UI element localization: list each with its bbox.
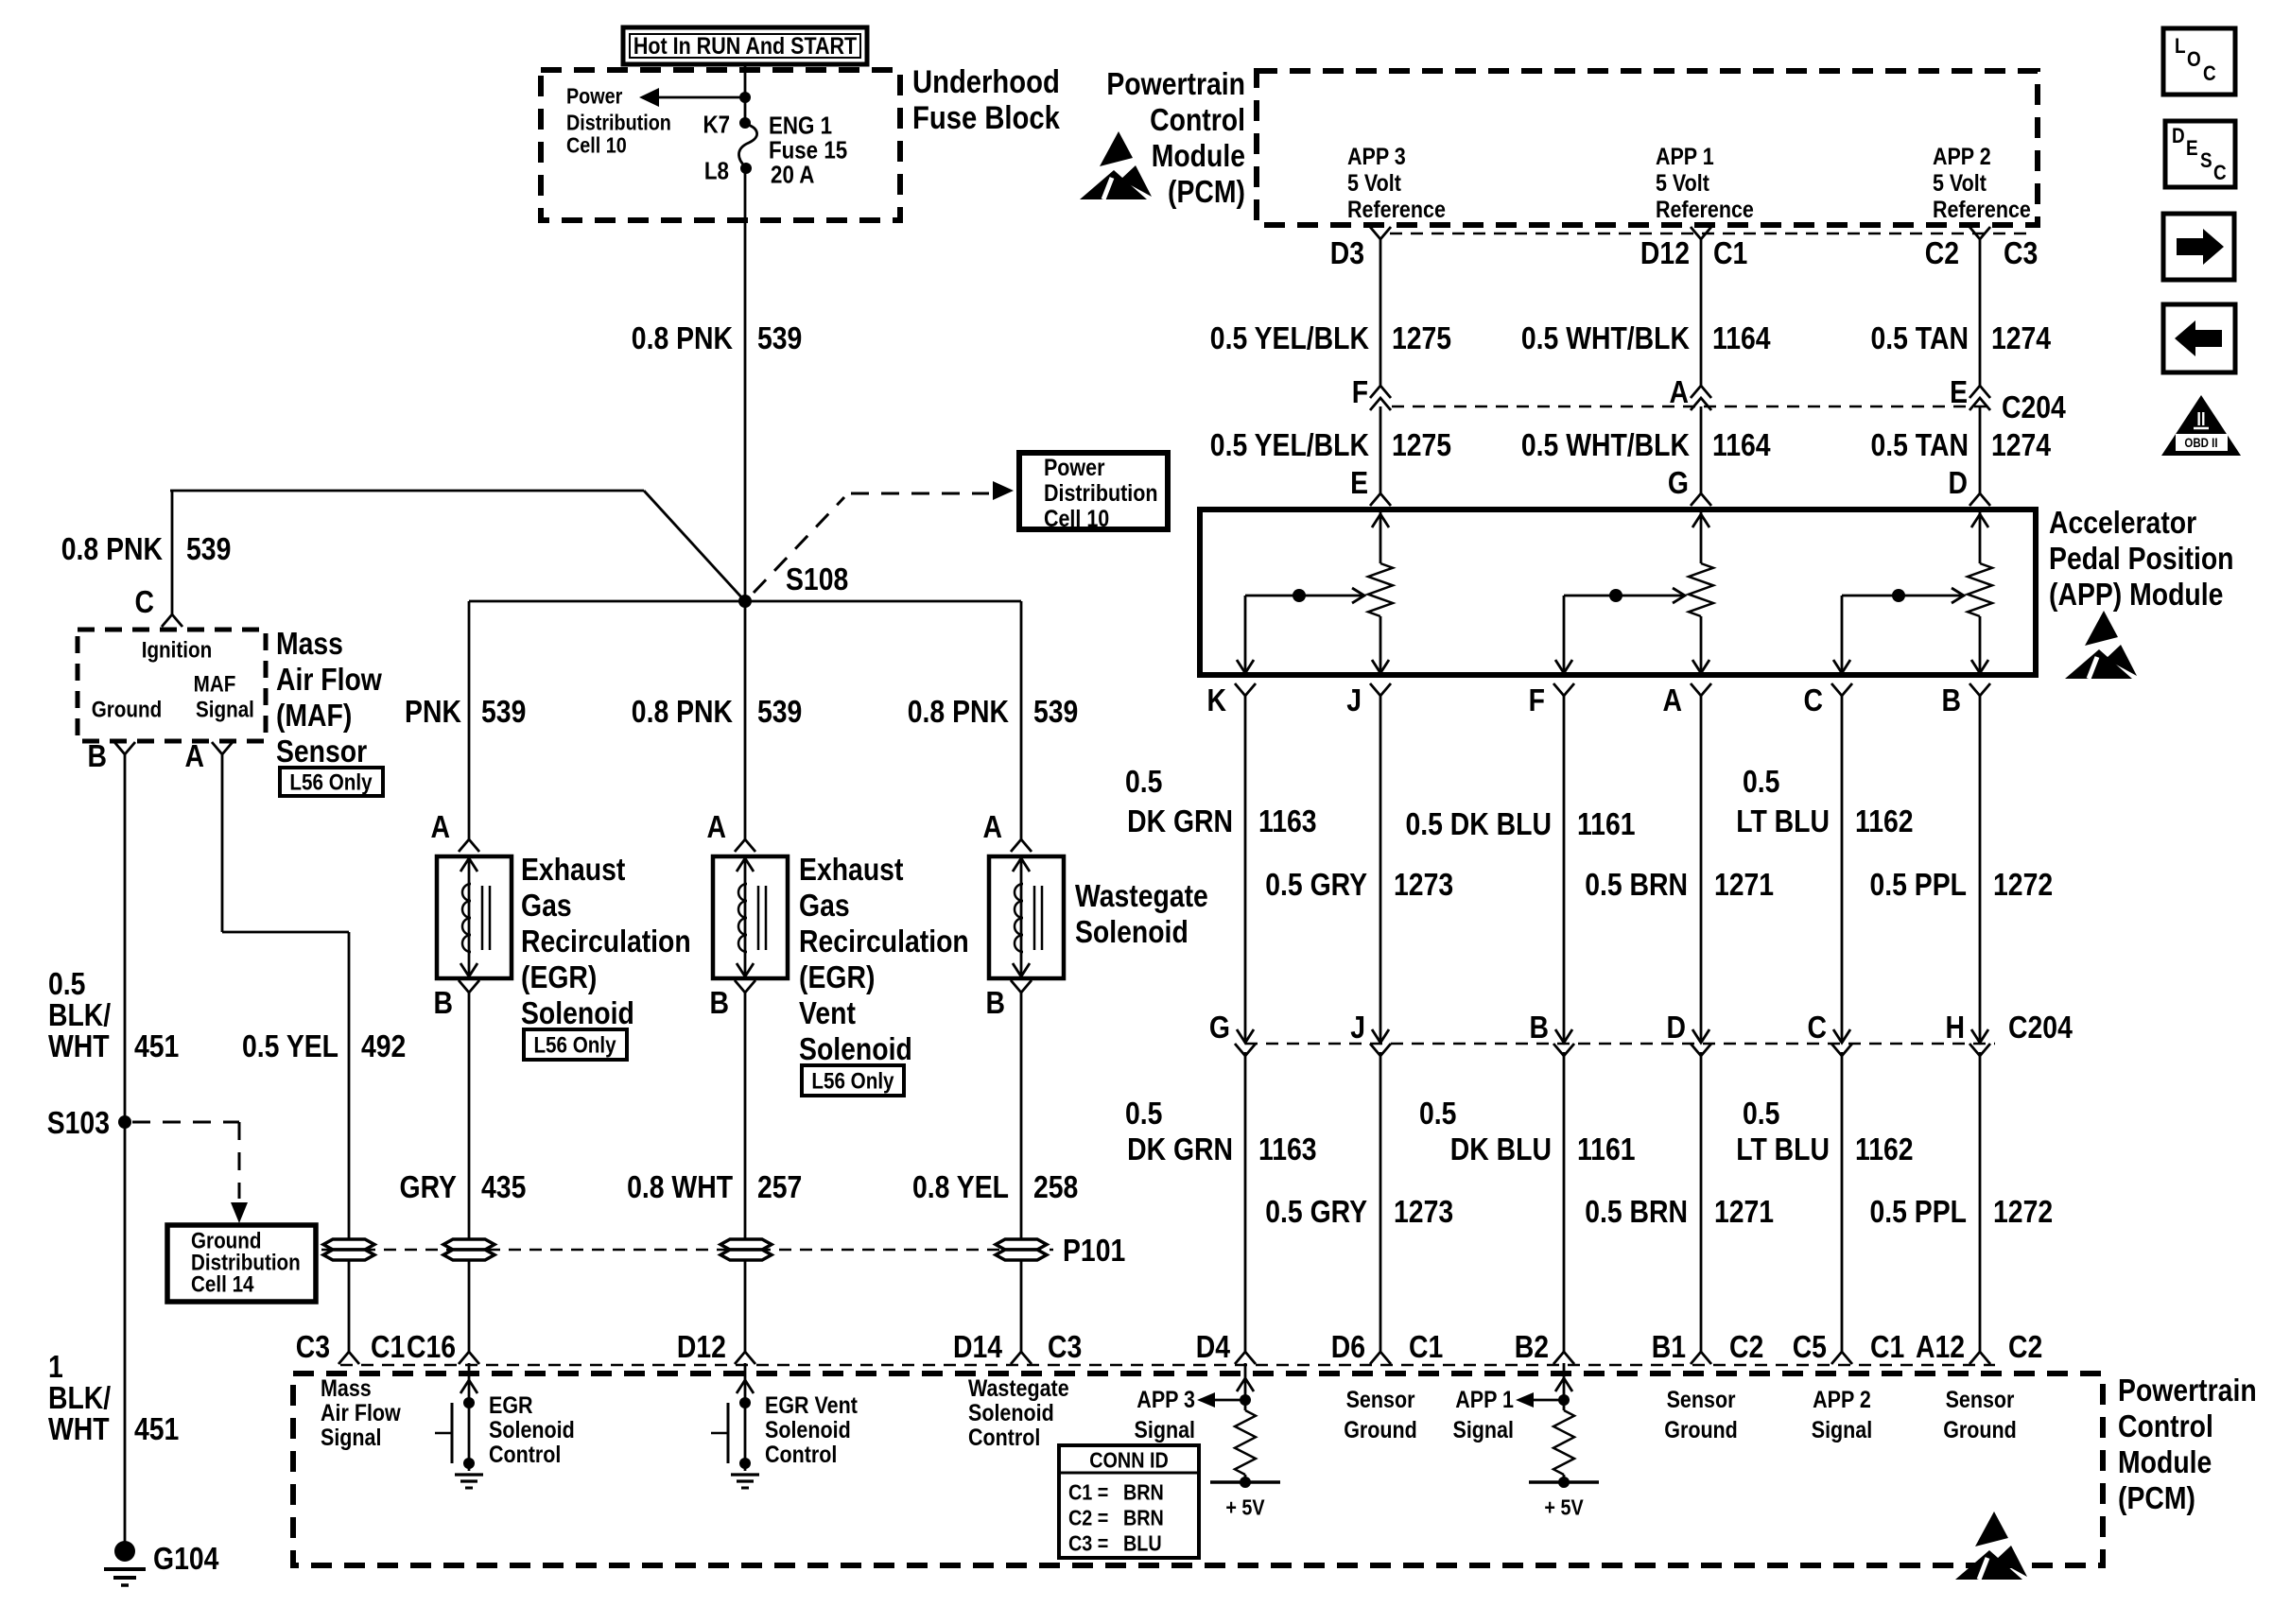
svg-text:Distribution: Distribution xyxy=(1044,479,1158,506)
svg-text:G104: G104 xyxy=(153,1541,218,1577)
svg-text:L8: L8 xyxy=(704,158,729,185)
svg-text:0.5 WHT/BLK: 0.5 WHT/BLK xyxy=(1521,427,1690,463)
svg-text:451: 451 xyxy=(134,1411,179,1447)
svg-text:E: E xyxy=(1950,374,1968,410)
svg-text:451: 451 xyxy=(134,1028,179,1064)
svg-text:Cell 10: Cell 10 xyxy=(566,133,627,158)
svg-text:+ 5V: + 5V xyxy=(1225,1495,1265,1520)
svg-text:Control: Control xyxy=(1150,102,1245,138)
svg-text:258: 258 xyxy=(1033,1169,1078,1205)
svg-text:5 Volt: 5 Volt xyxy=(1933,169,1987,196)
svg-text:1163: 1163 xyxy=(1258,803,1317,839)
svg-text:L56 Only: L56 Only xyxy=(289,769,373,795)
svg-text:WHT: WHT xyxy=(48,1411,110,1447)
svg-text:A: A xyxy=(1669,374,1688,410)
svg-text:Control: Control xyxy=(489,1441,561,1467)
svg-text:C: C xyxy=(2203,62,2216,86)
svg-text:0.5 GRY: 0.5 GRY xyxy=(1265,867,1367,903)
svg-text:B: B xyxy=(1941,682,1960,718)
svg-text:5 Volt: 5 Volt xyxy=(1656,169,1709,196)
svg-text:OBD II: OBD II xyxy=(2184,435,2217,450)
svg-text:G: G xyxy=(1668,465,1689,501)
svg-text:0.5 YEL/BLK: 0.5 YEL/BLK xyxy=(1210,320,1369,356)
svg-text:(MAF): (MAF) xyxy=(276,698,352,734)
svg-text:Powertrain: Powertrain xyxy=(1106,66,1245,102)
svg-text:Ground: Ground xyxy=(1344,1416,1417,1443)
svg-text:L56 Only: L56 Only xyxy=(533,1032,616,1058)
svg-text:492: 492 xyxy=(361,1028,406,1064)
svg-text:Cell 14: Cell 14 xyxy=(191,1271,254,1297)
svg-text:D4: D4 xyxy=(1196,1329,1230,1365)
svg-text:Mass: Mass xyxy=(276,626,343,662)
svg-text:A: A xyxy=(185,738,204,774)
svg-text:S108: S108 xyxy=(786,561,848,597)
svg-text:(EGR): (EGR) xyxy=(799,959,875,995)
svg-text:P101: P101 xyxy=(1063,1233,1125,1269)
svg-text:0.5 DK BLU: 0.5 DK BLU xyxy=(1405,806,1551,842)
svg-text:B: B xyxy=(88,738,107,774)
svg-text:1274: 1274 xyxy=(1991,320,2051,356)
svg-text:Mass: Mass xyxy=(321,1374,372,1401)
svg-text:APP 3: APP 3 xyxy=(1136,1386,1195,1412)
svg-text:Power: Power xyxy=(566,84,623,109)
svg-text:Distribution: Distribution xyxy=(566,111,671,135)
svg-text:Solenoid: Solenoid xyxy=(765,1416,851,1443)
svg-text:Wastegate: Wastegate xyxy=(968,1374,1069,1401)
svg-text:Fuse 15: Fuse 15 xyxy=(769,137,847,164)
svg-text:0.8 PNK: 0.8 PNK xyxy=(632,694,733,730)
svg-text:Pedal Position: Pedal Position xyxy=(2049,541,2233,577)
svg-text:APP 1: APP 1 xyxy=(1656,143,1714,169)
svg-text:APP 1: APP 1 xyxy=(1455,1386,1514,1412)
svg-text:B: B xyxy=(434,985,453,1021)
svg-text:0.5: 0.5 xyxy=(48,966,85,1002)
svg-text:B1: B1 xyxy=(1652,1329,1686,1365)
svg-text:C204: C204 xyxy=(2002,389,2066,425)
svg-text:D12: D12 xyxy=(677,1329,726,1365)
svg-text:1161: 1161 xyxy=(1577,1132,1636,1167)
svg-text:1161: 1161 xyxy=(1577,806,1636,842)
svg-text:Exhaust: Exhaust xyxy=(521,852,625,888)
svg-text:C1: C1 xyxy=(1870,1329,1904,1365)
svg-text:Reference: Reference xyxy=(1933,196,2031,222)
svg-text:EGR Vent: EGR Vent xyxy=(765,1391,858,1418)
svg-text:H: H xyxy=(1946,1010,1965,1045)
svg-text:1272: 1272 xyxy=(1993,1194,2053,1230)
svg-text:Gas: Gas xyxy=(799,888,850,924)
svg-text:(PCM): (PCM) xyxy=(1168,174,1245,210)
svg-text:Recirculation: Recirculation xyxy=(799,924,969,959)
svg-text:B: B xyxy=(1530,1010,1549,1045)
svg-text:Wastegate: Wastegate xyxy=(1075,878,1208,914)
svg-text:Control: Control xyxy=(765,1441,837,1467)
svg-text:Signal: Signal xyxy=(321,1424,381,1450)
svg-text:1271: 1271 xyxy=(1714,867,1774,903)
svg-text:1275: 1275 xyxy=(1392,427,1451,463)
svg-text:C1 =: C1 = xyxy=(1068,1480,1108,1505)
svg-text:C3: C3 xyxy=(1048,1329,1082,1365)
svg-text:Solenoid: Solenoid xyxy=(1075,914,1189,950)
svg-text:D6: D6 xyxy=(1331,1329,1365,1365)
svg-text:A: A xyxy=(983,809,1002,845)
svg-text:Sensor: Sensor xyxy=(1946,1386,2015,1412)
svg-text:20 A: 20 A xyxy=(771,162,814,189)
svg-text:Reference: Reference xyxy=(1656,196,1754,222)
svg-text:1273: 1273 xyxy=(1394,867,1453,903)
svg-text:Solenoid: Solenoid xyxy=(521,995,634,1031)
svg-text:1162: 1162 xyxy=(1855,803,1914,839)
svg-text:J: J xyxy=(1346,682,1362,718)
svg-text:B: B xyxy=(985,985,1004,1021)
svg-text:J: J xyxy=(1350,1010,1365,1045)
svg-text:539: 539 xyxy=(1033,694,1078,730)
svg-text:L: L xyxy=(2175,35,2186,59)
svg-text:Exhaust: Exhaust xyxy=(799,852,903,888)
svg-text:BLK/: BLK/ xyxy=(48,1380,112,1416)
svg-text:0.5 WHT/BLK: 0.5 WHT/BLK xyxy=(1521,320,1690,356)
svg-text:Solenoid: Solenoid xyxy=(489,1416,575,1443)
svg-text:F: F xyxy=(1529,682,1545,718)
svg-text:A: A xyxy=(431,809,450,845)
svg-text:0.5: 0.5 xyxy=(1125,764,1162,800)
svg-text:Powertrain: Powertrain xyxy=(2118,1373,2257,1408)
svg-text:0.5: 0.5 xyxy=(1743,764,1779,800)
svg-text:0.8 PNK: 0.8 PNK xyxy=(61,531,163,567)
svg-text:C2 =: C2 = xyxy=(1068,1506,1108,1530)
svg-text:C16: C16 xyxy=(407,1329,456,1365)
svg-text:C2: C2 xyxy=(2008,1329,2042,1365)
svg-text:CONN ID: CONN ID xyxy=(1089,1448,1168,1473)
svg-text:C3 =: C3 = xyxy=(1068,1531,1108,1556)
svg-text:C2: C2 xyxy=(1925,235,1959,271)
svg-text:Control: Control xyxy=(2118,1408,2213,1444)
svg-text:B: B xyxy=(710,985,729,1021)
svg-text:S103: S103 xyxy=(47,1105,110,1141)
svg-text:Gas: Gas xyxy=(521,888,572,924)
svg-text:C: C xyxy=(1808,1010,1827,1045)
svg-text:C1: C1 xyxy=(1713,235,1747,271)
svg-text:DK BLU: DK BLU xyxy=(1450,1132,1552,1167)
svg-text:435: 435 xyxy=(481,1169,526,1205)
svg-text:0.5: 0.5 xyxy=(1125,1096,1162,1132)
svg-text:0.8 PNK: 0.8 PNK xyxy=(908,694,1009,730)
svg-text:ENG 1: ENG 1 xyxy=(769,112,832,140)
svg-text:539: 539 xyxy=(757,320,802,356)
svg-text:Recirculation: Recirculation xyxy=(521,924,691,959)
svg-text:0.5 TAN: 0.5 TAN xyxy=(1870,427,1969,463)
svg-text:A12: A12 xyxy=(1916,1329,1965,1365)
svg-text:K7: K7 xyxy=(703,112,730,139)
svg-text:Solenoid: Solenoid xyxy=(799,1031,912,1067)
svg-text:+ 5V: + 5V xyxy=(1544,1495,1584,1520)
svg-text:L56 Only: L56 Only xyxy=(811,1068,894,1094)
svg-text:Control: Control xyxy=(968,1424,1040,1450)
svg-text:Air Flow: Air Flow xyxy=(276,662,382,698)
svg-text:D: D xyxy=(2172,125,2185,148)
svg-text:Signal: Signal xyxy=(1812,1416,1872,1443)
svg-text:Reference: Reference xyxy=(1347,196,1446,222)
svg-text:C2: C2 xyxy=(1729,1329,1763,1365)
svg-text:LT BLU: LT BLU xyxy=(1736,1132,1830,1167)
svg-text:C: C xyxy=(134,584,153,620)
svg-text:0.5: 0.5 xyxy=(1743,1096,1779,1132)
svg-text:D12: D12 xyxy=(1640,235,1690,271)
svg-text:0.8 PNK: 0.8 PNK xyxy=(632,320,733,356)
svg-text:(EGR): (EGR) xyxy=(521,959,597,995)
svg-text:APP 2: APP 2 xyxy=(1933,143,1991,169)
svg-text:5 Volt: 5 Volt xyxy=(1347,169,1401,196)
svg-text:Accelerator: Accelerator xyxy=(2049,505,2196,541)
svg-text:K: K xyxy=(1206,682,1225,718)
svg-text:EGR: EGR xyxy=(489,1391,533,1418)
svg-text:II: II xyxy=(2196,407,2205,429)
svg-text:C5: C5 xyxy=(1793,1329,1827,1365)
svg-text:0.5 YEL/BLK: 0.5 YEL/BLK xyxy=(1210,427,1369,463)
svg-text:539: 539 xyxy=(757,694,802,730)
svg-text:C1: C1 xyxy=(371,1329,405,1365)
svg-text:BLK/: BLK/ xyxy=(48,997,112,1033)
svg-text:C3: C3 xyxy=(2004,235,2038,271)
svg-text:0.5 YEL: 0.5 YEL xyxy=(242,1028,338,1064)
svg-text:S: S xyxy=(2200,149,2212,173)
svg-text:Sensor: Sensor xyxy=(276,734,367,769)
svg-text:257: 257 xyxy=(757,1169,802,1205)
svg-text:Underhood: Underhood xyxy=(912,63,1060,100)
svg-text:D: D xyxy=(1667,1010,1686,1045)
svg-text:1162: 1162 xyxy=(1855,1132,1914,1167)
svg-text:0.8 YEL: 0.8 YEL xyxy=(912,1169,1009,1205)
svg-text:1274: 1274 xyxy=(1991,427,2051,463)
svg-text:BRN: BRN xyxy=(1123,1480,1164,1505)
svg-text:Signal: Signal xyxy=(196,697,254,722)
svg-text:BLU: BLU xyxy=(1123,1531,1162,1556)
svg-text:0.5 PPL: 0.5 PPL xyxy=(1869,1194,1966,1230)
svg-text:Solenoid: Solenoid xyxy=(968,1399,1054,1425)
svg-text:Fuse Block: Fuse Block xyxy=(912,99,1060,136)
svg-text:F: F xyxy=(1352,374,1368,410)
svg-text:Sensor: Sensor xyxy=(1667,1386,1736,1412)
svg-text:Module: Module xyxy=(2118,1444,2212,1480)
svg-text:APP 2: APP 2 xyxy=(1813,1386,1871,1412)
svg-text:0.5 BRN: 0.5 BRN xyxy=(1585,1194,1688,1230)
svg-text:0.5: 0.5 xyxy=(1419,1096,1456,1132)
svg-text:A: A xyxy=(1663,682,1682,718)
svg-text:A: A xyxy=(706,809,725,845)
svg-text:LT BLU: LT BLU xyxy=(1736,803,1830,839)
svg-text:Ignition: Ignition xyxy=(142,637,212,663)
svg-text:0.5 TAN: 0.5 TAN xyxy=(1870,320,1969,356)
svg-text:O: O xyxy=(2187,48,2201,72)
svg-text:C3: C3 xyxy=(296,1329,330,1365)
svg-text:C1: C1 xyxy=(1409,1329,1443,1365)
svg-text:Module: Module xyxy=(1152,138,1245,174)
svg-text:1275: 1275 xyxy=(1392,320,1451,356)
svg-text:D14: D14 xyxy=(953,1329,1002,1365)
svg-text:0.5 GRY: 0.5 GRY xyxy=(1265,1194,1367,1230)
svg-text:PNK: PNK xyxy=(405,694,461,730)
svg-text:Power: Power xyxy=(1044,454,1104,480)
svg-text:D: D xyxy=(1949,465,1968,501)
svg-text:WHT: WHT xyxy=(48,1028,110,1064)
svg-text:0.5 BRN: 0.5 BRN xyxy=(1585,867,1688,903)
svg-text:DK GRN: DK GRN xyxy=(1127,1132,1233,1167)
svg-text:E: E xyxy=(1350,465,1368,501)
svg-text:C: C xyxy=(1804,682,1823,718)
svg-text:Ground: Ground xyxy=(1664,1416,1738,1443)
svg-text:Signal: Signal xyxy=(1453,1416,1514,1443)
svg-text:1164: 1164 xyxy=(1712,427,1771,463)
svg-text:(APP) Module: (APP) Module xyxy=(2049,577,2223,613)
svg-text:MAF: MAF xyxy=(194,671,236,697)
svg-text:Hot In RUN And START: Hot In RUN And START xyxy=(633,32,857,59)
svg-text:(PCM): (PCM) xyxy=(2118,1480,2195,1516)
svg-text:1273: 1273 xyxy=(1394,1194,1453,1230)
svg-text:C204: C204 xyxy=(2008,1010,2073,1045)
svg-text:APP 3: APP 3 xyxy=(1347,143,1406,169)
svg-text:DK GRN: DK GRN xyxy=(1127,803,1233,839)
svg-text:Ground: Ground xyxy=(92,697,163,722)
svg-text:Ground: Ground xyxy=(1943,1416,2017,1443)
svg-text:Cell 10: Cell 10 xyxy=(1044,505,1109,531)
svg-text:1: 1 xyxy=(48,1349,63,1385)
svg-text:1272: 1272 xyxy=(1993,867,2053,903)
svg-text:GRY: GRY xyxy=(400,1169,458,1205)
svg-text:Air Flow: Air Flow xyxy=(321,1399,402,1425)
svg-text:1163: 1163 xyxy=(1258,1132,1317,1167)
svg-text:B2: B2 xyxy=(1515,1329,1549,1365)
svg-text:0.5 PPL: 0.5 PPL xyxy=(1869,867,1966,903)
svg-text:G: G xyxy=(1209,1010,1230,1045)
svg-text:BRN: BRN xyxy=(1123,1506,1164,1530)
svg-text:0.8 WHT: 0.8 WHT xyxy=(627,1169,733,1205)
svg-text:539: 539 xyxy=(186,531,231,567)
svg-text:Signal: Signal xyxy=(1135,1416,1195,1443)
svg-text:E: E xyxy=(2186,137,2198,161)
svg-text:1271: 1271 xyxy=(1714,1194,1774,1230)
svg-text:1164: 1164 xyxy=(1712,320,1771,356)
svg-text:Vent: Vent xyxy=(799,995,856,1031)
svg-text:Sensor: Sensor xyxy=(1346,1386,1415,1412)
svg-text:539: 539 xyxy=(481,694,526,730)
svg-text:D3: D3 xyxy=(1330,235,1364,271)
svg-text:C: C xyxy=(2213,162,2227,185)
